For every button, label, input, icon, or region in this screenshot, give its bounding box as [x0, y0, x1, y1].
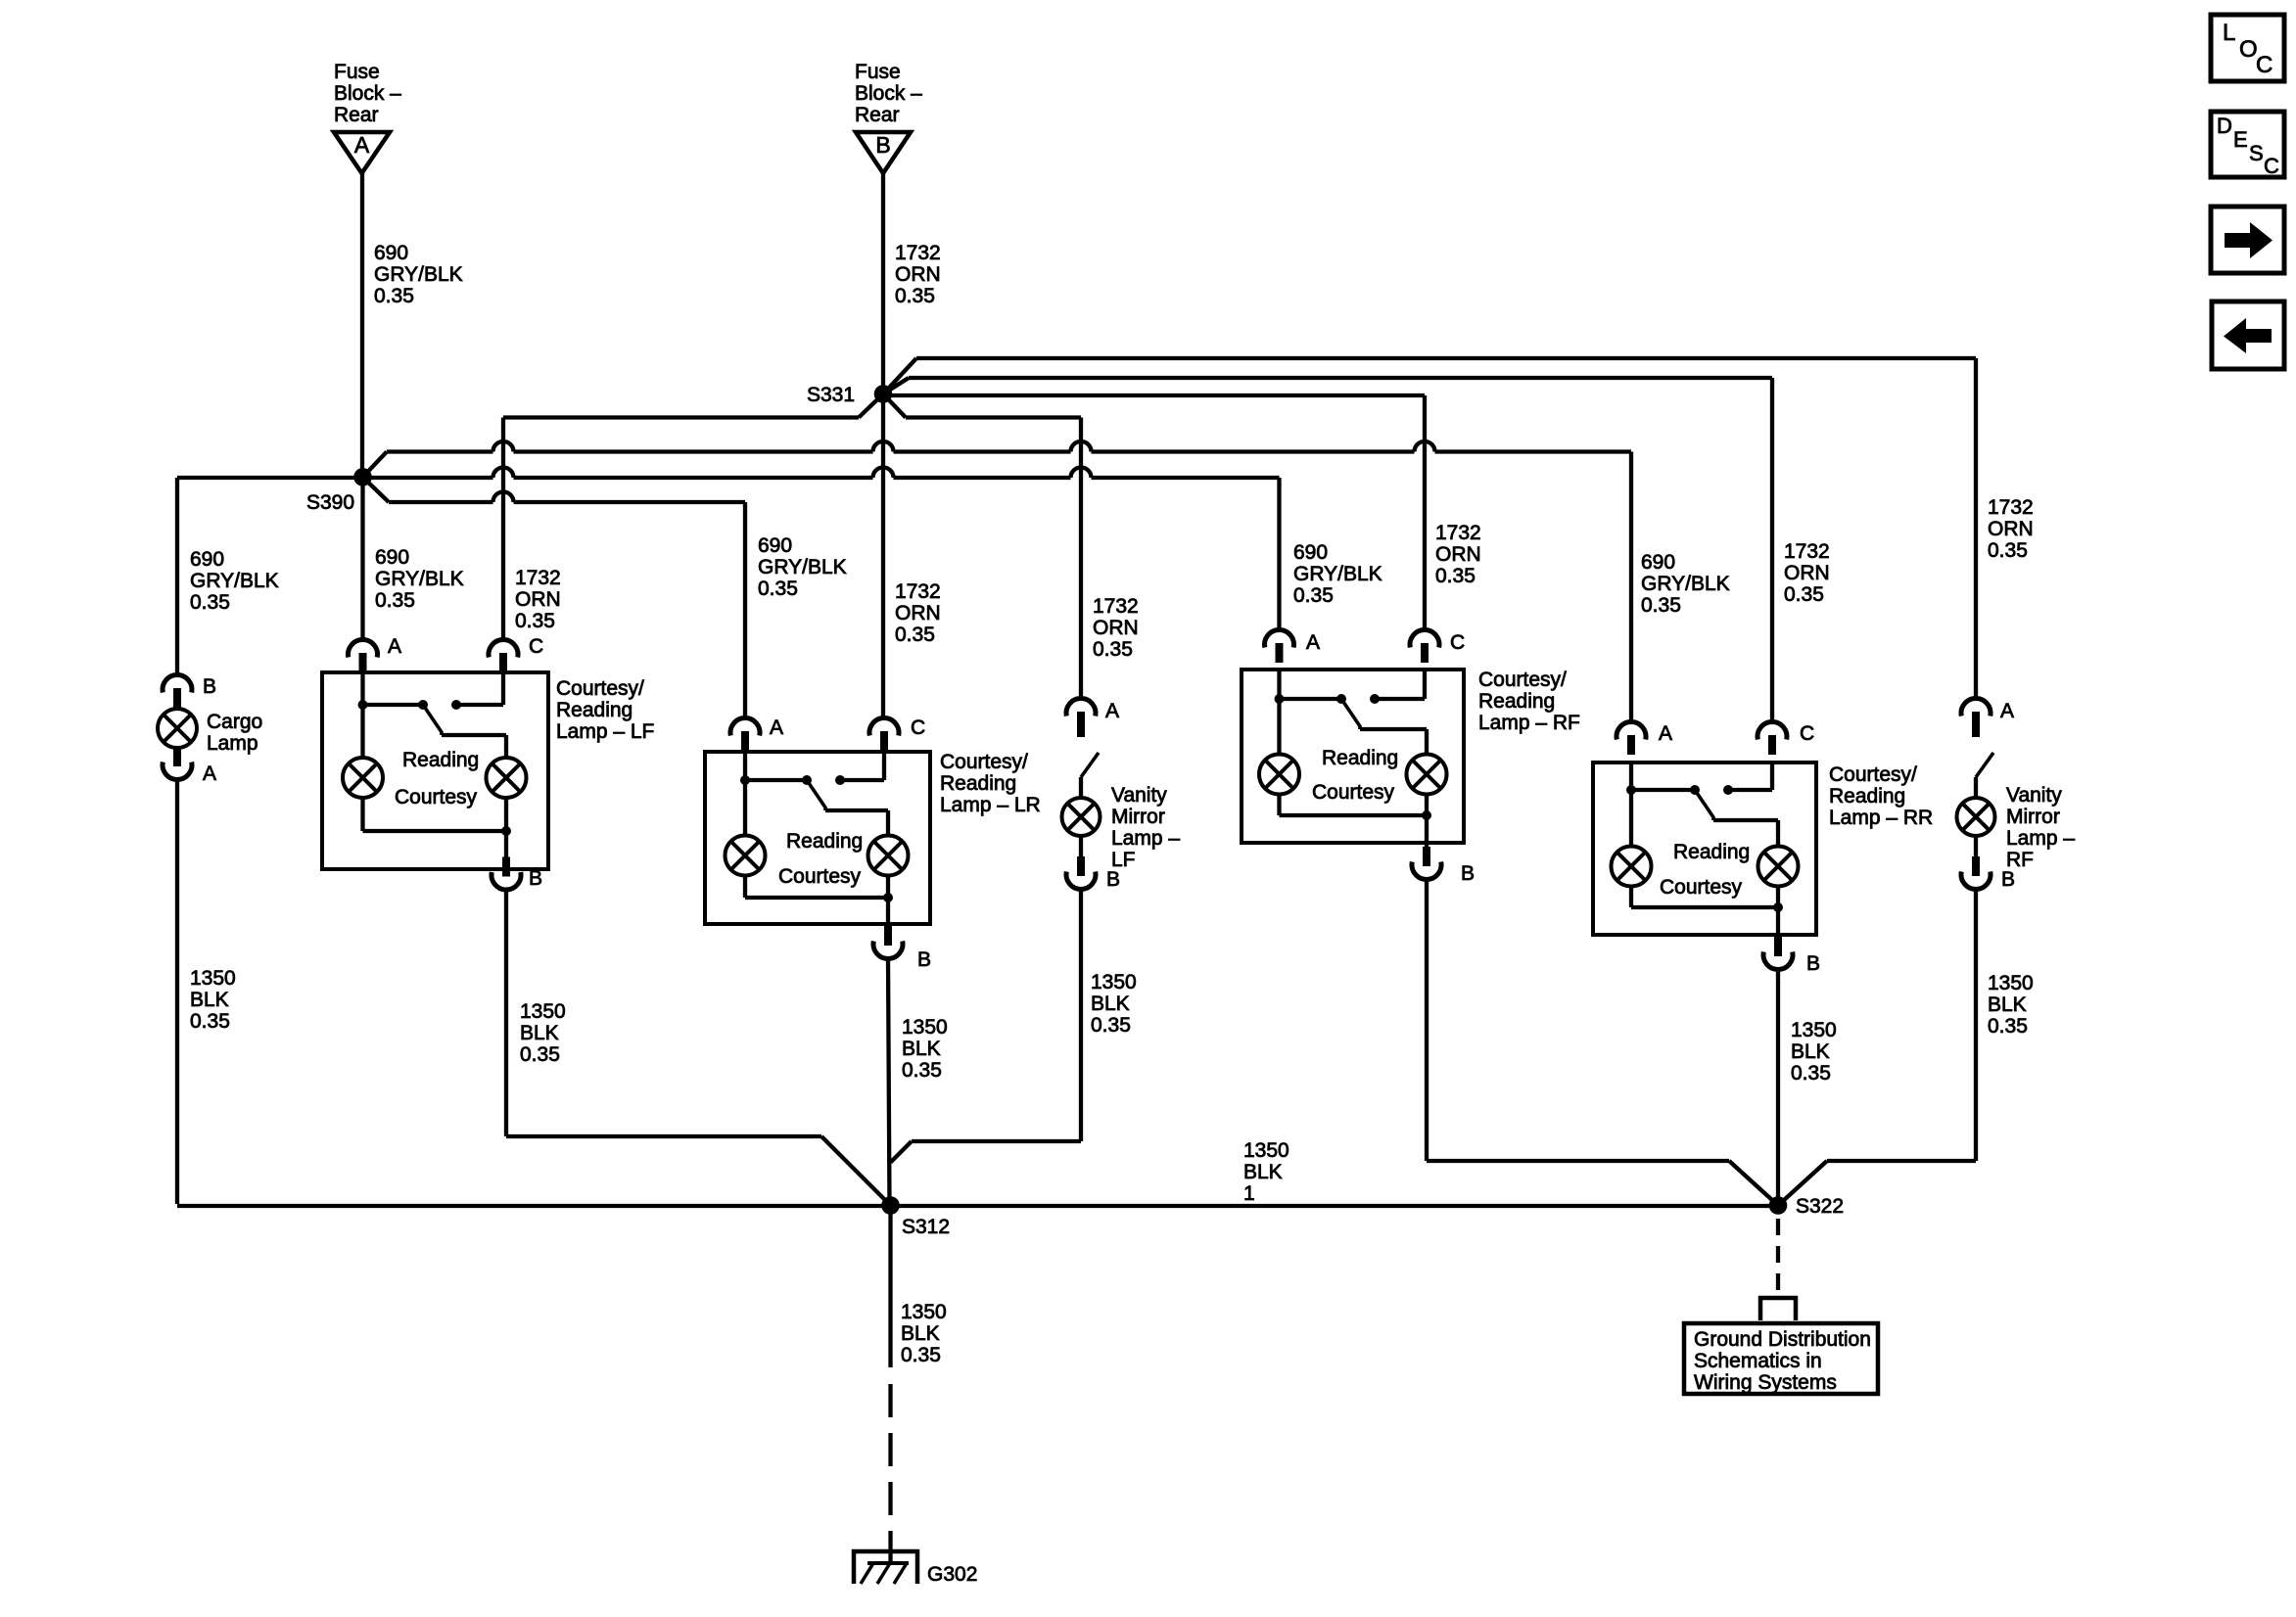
svg-text:0.35: 0.35 — [1791, 1062, 1831, 1085]
svg-text:690: 690 — [375, 546, 409, 569]
connector A of courtesy/reading lamp LF — [349, 635, 402, 672]
svg-text:1732: 1732 — [515, 567, 561, 589]
vanity mirror lamp LF bulb — [1062, 798, 1101, 836]
svg-text:Rear: Rear — [334, 104, 379, 126]
label 1350 BLK 0.35 (LR lamp ground wire) — [902, 1016, 948, 1082]
svg-text:Lamp –: Lamp – — [1111, 827, 1180, 850]
svg-text:B: B — [875, 132, 890, 158]
svg-text:A: A — [1659, 722, 1672, 745]
label G302 — [927, 1563, 977, 1586]
svg-text:0.35: 0.35 — [1988, 1015, 2028, 1038]
svg-text:Fuse: Fuse — [855, 61, 901, 83]
wire S331 diagonal to H4 left — [859, 394, 883, 418]
wire H7 drop down to LR lamp A — [743, 502, 747, 718]
svg-text:G302: G302 — [927, 1563, 977, 1586]
svg-text:Lamp: Lamp — [207, 732, 258, 755]
wire H4R drop down to vanity LF lamp A — [1079, 418, 1083, 699]
RF internal wire C to switch contact — [1375, 670, 1425, 699]
label S322 — [1796, 1195, 1844, 1218]
svg-text:GRY/BLK: GRY/BLK — [758, 556, 847, 578]
splice S390 node dot — [353, 468, 372, 486]
svg-text:0.35: 0.35 — [1784, 583, 1824, 606]
RF switch common to reading lamp — [1360, 729, 1427, 755]
vanity LF upper stub — [1077, 718, 1085, 737]
dashed wire continuation to G302 — [888, 1384, 892, 1563]
svg-text:Reading: Reading — [1478, 690, 1555, 713]
svg-text:Lamp –: Lamp – — [2006, 827, 2075, 850]
svg-text:Lamp – LF: Lamp – LF — [556, 720, 654, 743]
wire H5 drop down to RR lamp A — [1629, 452, 1633, 722]
LF switch contact dot — [451, 700, 461, 710]
svg-text:A: A — [1306, 631, 1320, 654]
svg-text:0.35: 0.35 — [1641, 594, 1681, 617]
svg-text:Vanity: Vanity — [2006, 784, 2062, 807]
svg-text:1350: 1350 — [1791, 1019, 1837, 1041]
svg-text:B: B — [1806, 952, 1820, 975]
RR wire to connector B — [1776, 907, 1780, 949]
courtesy/reading lamp RF box outline — [1242, 670, 1464, 843]
courtesy/reading lamp LF box outline — [322, 672, 548, 869]
svg-text:1732: 1732 — [1988, 496, 2034, 519]
LR internal wire A to switch — [745, 752, 807, 780]
wire H3 1732 ORN bus to lamp RF pin C — [883, 393, 1425, 397]
RR switch pivot dot — [1690, 785, 1700, 795]
RR courtesy bulb — [1612, 847, 1652, 887]
svg-text:Courtesy: Courtesy — [778, 865, 862, 888]
svg-text:Courtesy/: Courtesy/ — [1478, 669, 1567, 691]
cargo lamp label — [207, 711, 262, 755]
RF switch blade — [1341, 699, 1360, 729]
LF switch blade — [423, 705, 442, 735]
LF wire to connector B — [504, 831, 508, 870]
wire S390 diagonal to H7 — [363, 477, 390, 502]
svg-text:Vanity: Vanity — [1111, 784, 1167, 807]
svg-text:GRY/BLK: GRY/BLK — [374, 263, 463, 286]
svg-text:GRY/BLK: GRY/BLK — [1641, 573, 1730, 595]
LF internal wire C to switch contact — [456, 672, 503, 705]
svg-text:E: E — [2233, 127, 2248, 152]
label 1350 BLK 0.35 (vanity RF ground wire) — [1988, 972, 2034, 1038]
icon box DESC (description link) — [2211, 112, 2284, 178]
RF text Reading — [1322, 747, 1398, 769]
label 1732 ORN 0.35 (LF lamp C wire) — [515, 567, 561, 632]
wire 1732 ORN from S331 down to LR lamp C — [881, 394, 885, 718]
svg-text:Schematics in: Schematics in — [1694, 1350, 1822, 1372]
label 690 GRY/BLK 0.35 (LR lamp A wire) — [758, 534, 847, 600]
wire 690 GRY/BLK S390 left to cargo lamp drop — [177, 478, 363, 674]
wire 1732 ORN from fuse B down to S331 — [881, 173, 885, 386]
RR switch junction dot on A wire — [1626, 785, 1636, 795]
svg-text:0.35: 0.35 — [190, 1010, 230, 1033]
svg-text:Mirror: Mirror — [2006, 806, 2060, 828]
RR switch common to reading lamp — [1713, 820, 1778, 847]
label 1732 ORN 0.35 (LR lamp C wire) — [895, 580, 941, 646]
LR switch blade — [807, 780, 825, 810]
label 690 GRY/BLK 0.35 (RF lamp A wire) — [1293, 541, 1382, 607]
svg-text:1350: 1350 — [901, 1301, 947, 1323]
wire 1350 BLK vanity LF down to S312 — [891, 890, 1082, 1163]
vanity RF switch blade — [1976, 753, 1993, 777]
wire S331 diagonal to H4 right — [883, 394, 906, 418]
svg-text:A: A — [2000, 700, 2014, 722]
RF text Courtesy — [1312, 781, 1395, 804]
svg-text:0.35: 0.35 — [1988, 539, 2028, 562]
vanity LF connector A — [1066, 699, 1119, 731]
label 1350 BLK 0.35 (vanity LF ground wire) — [1091, 971, 1137, 1037]
RF switch junction dot on A wire — [1275, 694, 1285, 704]
svg-text:Courtesy/: Courtesy/ — [940, 751, 1028, 773]
svg-text:690: 690 — [190, 548, 224, 571]
label 690 GRY/BLK 0.35 (LF lamp A wire) — [375, 546, 464, 612]
vanity LF connector B — [1066, 856, 1120, 891]
svg-text:1732: 1732 — [1784, 540, 1830, 563]
svg-text:Ground Distribution: Ground Distribution — [1694, 1328, 1871, 1351]
wire S331 diagonal to H2 — [883, 378, 909, 394]
svg-text:0.35: 0.35 — [902, 1059, 942, 1082]
RF bottom bus inside box — [1280, 795, 1428, 816]
wire S331 diagonal to H1 — [883, 358, 916, 394]
label 1732 ORN 0.35 (vanity RF wire) — [1988, 496, 2034, 562]
svg-text:A: A — [203, 762, 216, 785]
svg-text:BLK: BLK — [1091, 993, 1130, 1015]
connector A of courtesy/reading lamp LR — [730, 716, 783, 751]
label 1350 BLK 1 (ground bus S312 to S322) — [1243, 1139, 1289, 1205]
icon box LOC (schematic section locator) — [2211, 15, 2284, 81]
svg-text:Lamp – RF: Lamp – RF — [1478, 712, 1580, 734]
svg-text:BLK: BLK — [1243, 1161, 1283, 1183]
svg-text:690: 690 — [1641, 551, 1675, 574]
wire 690 GRY/BLK from S390 down to LF lamp A — [360, 477, 364, 639]
LR switch junction dot on A wire — [740, 775, 750, 785]
wire H6 690 GRY/BLK bus to lamp RF pin A — [363, 468, 1280, 478]
svg-text:ORN: ORN — [1784, 562, 1830, 584]
svg-text:1350: 1350 — [1243, 1139, 1289, 1162]
splice S322 node dot — [1769, 1196, 1788, 1215]
svg-text:Lamp – LR: Lamp – LR — [940, 794, 1041, 816]
fuse block A label text — [334, 61, 401, 126]
svg-text:Courtesy: Courtesy — [395, 786, 478, 808]
vanity RF wire to bulb — [1974, 777, 1978, 798]
svg-text:Reading: Reading — [402, 749, 479, 771]
svg-text:0.35: 0.35 — [1091, 1014, 1131, 1037]
fuse block feed B triangle connector — [856, 132, 911, 173]
LF courtesy bulb — [343, 758, 383, 798]
label 1350 BLK 0.35 (cargo lamp ground wire) — [190, 967, 236, 1033]
wire 1350 BLK cargo lamp down to ground bus — [175, 780, 179, 1204]
vanity mirror lamp RF bulb — [1957, 798, 1995, 836]
svg-text:Lamp – RR: Lamp – RR — [1829, 807, 1933, 829]
connector C of courtesy/reading lamp RR — [1757, 722, 1814, 755]
icon box back arrow — [2212, 301, 2284, 369]
svg-text:ORN: ORN — [515, 588, 561, 611]
RF wire A down to courtesy bulb — [1277, 699, 1281, 755]
label S312 — [902, 1216, 950, 1238]
LF bottom junction dot — [501, 826, 511, 836]
svg-text:S322: S322 — [1796, 1195, 1844, 1218]
RR text Reading — [1673, 841, 1750, 863]
svg-text:GRY/BLK: GRY/BLK — [1293, 563, 1382, 585]
vanity RF upper stub — [1972, 718, 1980, 737]
svg-text:Courtesy/: Courtesy/ — [1829, 763, 1917, 786]
wire H5 690 GRY/BLK bus to lamp RR pin A — [387, 441, 1631, 452]
wire 1350 BLK ground bus from cargo corner through S312 to S322 — [177, 1204, 1778, 1208]
RF wire to connector B — [1425, 815, 1429, 859]
fuse block B label text — [855, 61, 922, 126]
RR wire A down to courtesy bulb — [1629, 790, 1633, 847]
label 1732 ORN 0.35 (fuse B wire) — [895, 242, 941, 307]
RR text Courtesy — [1660, 876, 1743, 899]
svg-text:GRY/BLK: GRY/BLK — [375, 568, 464, 590]
svg-text:Cargo: Cargo — [207, 711, 262, 733]
svg-text:ORN: ORN — [1988, 518, 2034, 540]
svg-text:0.35: 0.35 — [895, 624, 935, 646]
svg-text:BLK: BLK — [520, 1022, 559, 1044]
LR reading bulb — [868, 836, 909, 876]
svg-text:Courtesy: Courtesy — [1312, 781, 1395, 804]
RF courtesy bulb — [1259, 755, 1299, 795]
LR switch common to reading lamp — [825, 810, 888, 836]
label 1350 BLK 0.35 (RR lamp ground wire) — [1791, 1019, 1837, 1085]
svg-text:Wiring Systems: Wiring Systems — [1694, 1371, 1837, 1394]
label 1732 ORN 0.35 (vanity LF wire) — [1093, 595, 1139, 661]
wire 1350 BLK RR lamp B down to S322 — [1776, 970, 1780, 1206]
svg-text:690: 690 — [1293, 541, 1328, 564]
svg-text:Reading: Reading — [940, 772, 1016, 795]
svg-text:1: 1 — [1243, 1182, 1255, 1205]
courtesy/reading lamp LR box outline — [705, 752, 930, 924]
connector B of courtesy/reading lamp LR — [873, 926, 931, 971]
label 690 GRY/BLK 0.35 (fuse A wire) — [374, 242, 463, 307]
svg-text:S: S — [2249, 141, 2264, 165]
svg-text:C: C — [529, 635, 543, 658]
svg-text:1350: 1350 — [190, 967, 236, 990]
label 1350 BLK 0.35 (S312 to G302 wire) — [901, 1301, 947, 1366]
connector C of courtesy/reading lamp RF — [1410, 630, 1465, 663]
RF reading bulb — [1407, 755, 1447, 795]
cargo lamp bulb — [158, 709, 197, 748]
label 690 GRY/BLK 0.35 (RR lamp A wire) — [1641, 551, 1730, 617]
vanity RF connector A — [1961, 699, 2014, 731]
RF internal wire A to switch — [1280, 670, 1342, 699]
svg-text:Reading: Reading — [556, 699, 633, 721]
svg-text:0.35: 0.35 — [758, 577, 798, 600]
LF text Reading — [402, 749, 479, 771]
connector C of courtesy/reading lamp LR — [869, 716, 925, 751]
svg-text:S331: S331 — [807, 384, 855, 406]
svg-text:0.35: 0.35 — [901, 1344, 941, 1366]
svg-text:O: O — [2239, 36, 2258, 63]
courtesy/reading lamp LR name label — [940, 751, 1041, 816]
LF switch junction dot on A wire — [358, 700, 368, 710]
svg-text:1732: 1732 — [895, 242, 941, 264]
svg-text:Block –: Block – — [855, 82, 922, 105]
svg-text:Reading: Reading — [786, 830, 863, 853]
svg-text:C: C — [2264, 154, 2279, 178]
svg-text:C: C — [911, 716, 925, 739]
RF switch contact dot — [1370, 694, 1380, 704]
RR internal wire C to switch contact — [1728, 762, 1772, 790]
svg-text:BLK: BLK — [1988, 993, 2027, 1016]
connector A of courtesy/reading lamp RR — [1617, 722, 1672, 755]
svg-text:A: A — [354, 132, 370, 158]
LR switch pivot dot — [802, 775, 812, 785]
LR internal wire C to switch contact — [840, 752, 884, 780]
svg-text:1732: 1732 — [895, 580, 941, 603]
LR switch contact dot — [835, 775, 845, 785]
LR bottom junction dot — [883, 893, 893, 902]
vanity RF lower stub — [1974, 836, 1978, 856]
connector C of courtesy/reading lamp LF — [489, 635, 543, 672]
LR bottom bus inside box — [745, 876, 888, 899]
svg-text:S312: S312 — [902, 1216, 950, 1238]
vanity RF connector B — [1961, 856, 2015, 891]
ground distribution reference box text — [1694, 1328, 1871, 1394]
RR bottom junction dot — [1773, 902, 1783, 912]
label 1350 BLK 0.35 (LF lamp ground wire) — [520, 1000, 566, 1066]
connector B of courtesy/reading lamp RF — [1412, 847, 1475, 885]
svg-text:0.35: 0.35 — [895, 285, 935, 307]
RR reading bulb — [1758, 847, 1799, 887]
LF wire A down to courtesy bulb — [360, 705, 364, 758]
cargo lamp lower stub — [175, 748, 179, 765]
LF switch pivot dot — [418, 700, 428, 710]
svg-text:B: B — [917, 948, 931, 971]
splice S331 node dot — [874, 385, 893, 403]
RF bottom junction dot — [1422, 810, 1431, 820]
svg-text:BLK: BLK — [901, 1322, 940, 1345]
vanity LF lower stub — [1079, 836, 1083, 856]
wire 1350 BLK vanity RF down to S322 — [1778, 890, 1976, 1206]
courtesy/reading lamp RF name label — [1478, 669, 1580, 734]
svg-text:C: C — [2256, 52, 2273, 78]
svg-text:0.35: 0.35 — [190, 591, 230, 614]
RR switch contact dot — [1723, 785, 1733, 795]
connector B of courtesy/reading lamp LF — [492, 857, 542, 891]
LR text Reading — [786, 830, 863, 853]
connector B of courtesy/reading lamp RR — [1763, 937, 1820, 975]
vanity LF switch blade — [1081, 753, 1099, 777]
wire S390 diagonal to H5 — [363, 452, 388, 478]
vanity mirror lamp LF name label — [1111, 784, 1180, 871]
wire H6 drop down to RF lamp A — [1277, 478, 1281, 629]
label S390 — [306, 491, 354, 514]
svg-text:ORN: ORN — [1435, 543, 1481, 566]
wire H2 1732 ORN bus to lamp RR pin C — [909, 376, 1772, 380]
fuse block feed A triangle connector — [334, 132, 390, 173]
splice S312 node dot — [881, 1196, 900, 1215]
svg-text:A: A — [388, 635, 401, 658]
icon box forward arrow — [2211, 207, 2284, 273]
svg-text:1350: 1350 — [1988, 972, 2034, 994]
svg-text:Reading: Reading — [1829, 785, 1905, 808]
wire H4 drop down to LF lamp C — [501, 418, 505, 640]
svg-text:A: A — [1105, 700, 1119, 722]
LF internal wire A to switch — [363, 672, 424, 705]
svg-text:ORN: ORN — [895, 263, 941, 286]
wire 1350 BLK LF lamp B to S312 — [506, 891, 891, 1206]
svg-text:Block –: Block – — [334, 82, 401, 105]
wire H2 drop down to RR lamp C — [1770, 378, 1774, 721]
svg-text:0.35: 0.35 — [1093, 638, 1133, 661]
svg-text:C: C — [1450, 631, 1465, 654]
svg-text:A: A — [770, 716, 783, 739]
svg-text:B: B — [1461, 862, 1475, 885]
svg-text:BLK: BLK — [1791, 1040, 1830, 1063]
wire H4R 1732 ORN bus to vanity mirror LF — [906, 415, 1081, 419]
vanity LF wire to bulb — [1079, 777, 1083, 798]
wire H4 1732 ORN bus to lamp LF pin C — [503, 415, 859, 419]
LR text Courtesy — [778, 865, 862, 888]
wire 1350 BLK from S312 down — [888, 1214, 892, 1367]
svg-text:BLK: BLK — [902, 1038, 941, 1060]
svg-text:0.35: 0.35 — [1435, 565, 1476, 587]
label 690 GRY/BLK 0.35 (cargo lamp wire) — [190, 548, 279, 614]
connector B of cargo lamp — [163, 675, 216, 708]
svg-text:ORN: ORN — [895, 602, 941, 624]
wire 690 GRY/BLK from fuse A down to S390 — [360, 173, 364, 477]
svg-text:B: B — [1106, 868, 1120, 891]
svg-text:1350: 1350 — [1091, 971, 1137, 993]
label 1732 ORN 0.35 (RR lamp C wire) — [1784, 540, 1830, 606]
LF reading bulb — [487, 758, 527, 798]
svg-text:690: 690 — [758, 534, 792, 557]
svg-text:S390: S390 — [306, 491, 354, 514]
ground distribution reference box outline — [1684, 1323, 1878, 1394]
label S331 — [807, 384, 855, 406]
svg-text:ORN: ORN — [1093, 617, 1139, 639]
svg-text:L: L — [2223, 20, 2235, 46]
courtesy/reading lamp LF name label — [556, 677, 654, 743]
svg-text:D: D — [2217, 114, 2232, 138]
courtesy/reading lamp RR name label — [1829, 763, 1933, 829]
svg-text:B: B — [529, 867, 542, 890]
svg-text:0.35: 0.35 — [515, 610, 555, 632]
svg-text:0.35: 0.35 — [1293, 584, 1334, 607]
svg-text:C: C — [1800, 722, 1814, 745]
svg-text:0.35: 0.35 — [520, 1043, 560, 1066]
connector A of courtesy/reading lamp RF — [1265, 630, 1321, 663]
dashed wire from S322 to harness connector — [1776, 1219, 1780, 1290]
svg-text:GRY/BLK: GRY/BLK — [190, 570, 279, 592]
wire 1350 BLK RF lamp B to S322 — [1427, 880, 1778, 1206]
RR internal wire A to switch — [1631, 762, 1695, 790]
svg-text:Rear: Rear — [855, 104, 900, 126]
svg-text:Mirror: Mirror — [1111, 806, 1165, 828]
ground G302 symbol — [852, 1549, 919, 1584]
svg-text:Reading: Reading — [1673, 841, 1750, 863]
vanity mirror lamp RF name label — [2006, 784, 2075, 871]
LR wire A down to courtesy bulb — [743, 780, 747, 836]
svg-text:BLK: BLK — [190, 989, 229, 1011]
svg-text:1350: 1350 — [520, 1000, 566, 1023]
LF switch common to reading lamp — [442, 735, 506, 758]
wire 1350 BLK LR lamp B down to S312 — [888, 959, 890, 1206]
svg-text:Fuse: Fuse — [334, 61, 380, 83]
svg-text:Courtesy: Courtesy — [1660, 876, 1743, 899]
LR courtesy bulb — [726, 836, 766, 876]
svg-text:Reading: Reading — [1322, 747, 1398, 769]
LR wire to connector B — [886, 898, 890, 939]
svg-text:0.35: 0.35 — [374, 285, 414, 307]
wire H7 690 GRY/BLK bus to lamp LR pin A — [389, 492, 745, 503]
svg-text:1732: 1732 — [1093, 595, 1139, 618]
svg-text:690: 690 — [374, 242, 408, 264]
harness bracket symbol below S322 — [1758, 1296, 1798, 1320]
svg-text:B: B — [2001, 868, 2015, 891]
RR switch blade — [1695, 790, 1713, 820]
svg-text:1350: 1350 — [902, 1016, 948, 1039]
LF text Courtesy — [395, 786, 478, 808]
